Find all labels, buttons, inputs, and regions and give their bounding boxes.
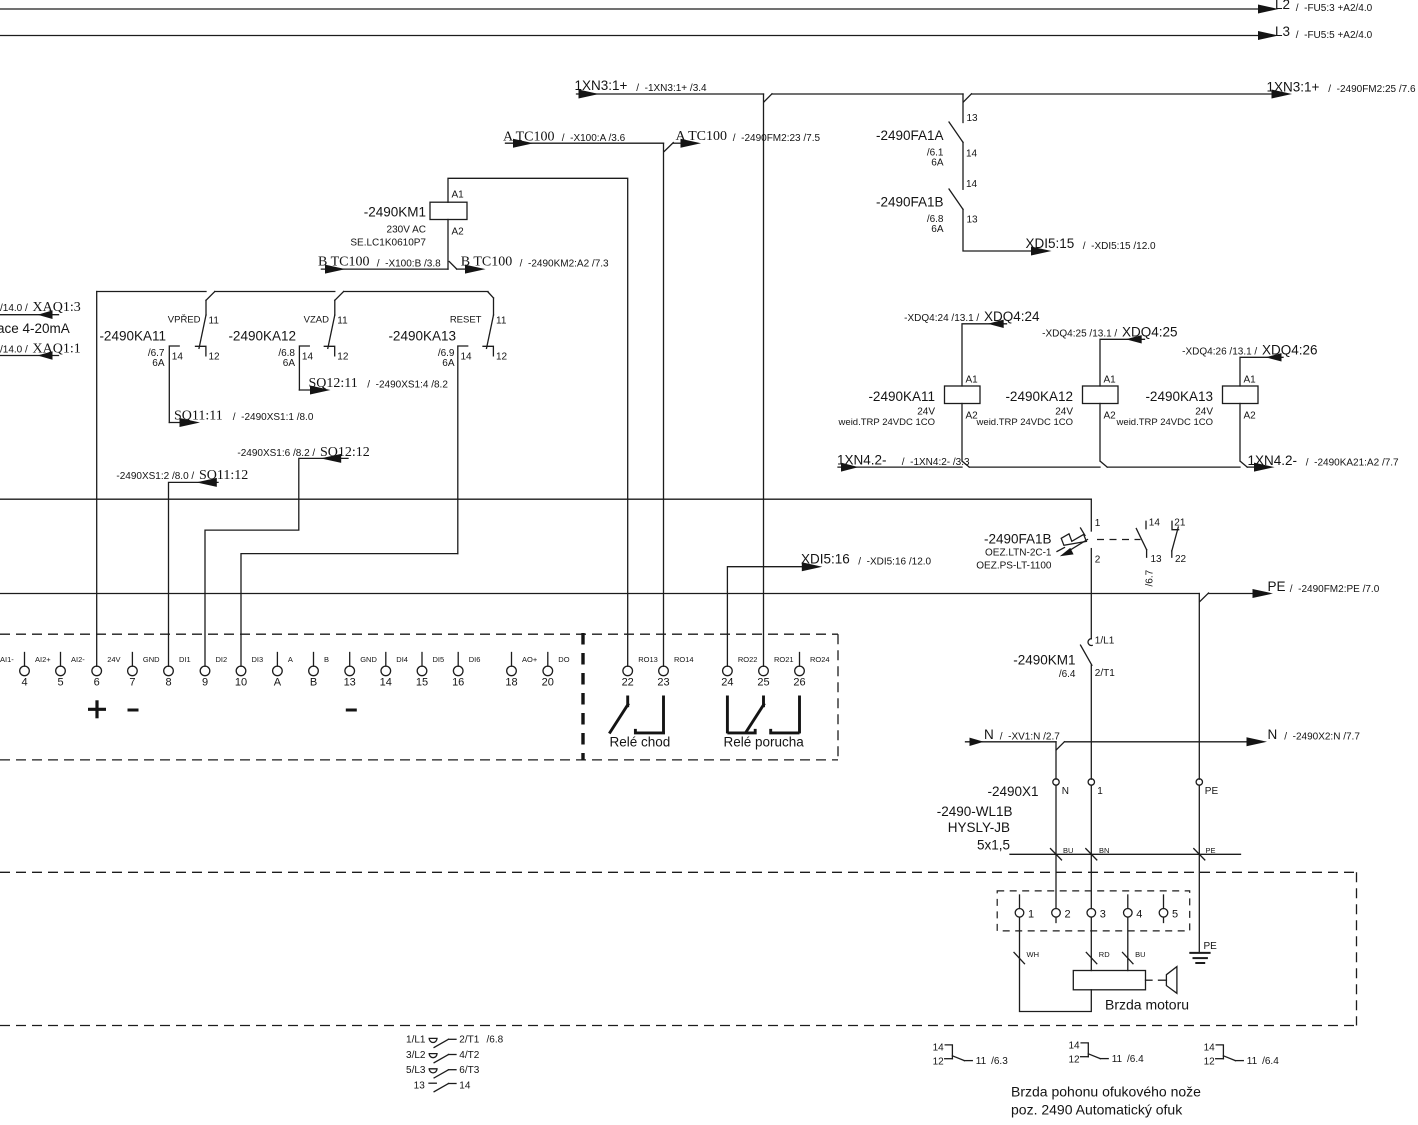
svg-text:22: 22 [1175, 554, 1187, 565]
wire junction jog KA13 A2 [1240, 461, 1247, 467]
plc box dashed right [837, 634, 839, 760]
svg-text:14: 14 [461, 352, 473, 363]
svg-text:14: 14 [966, 149, 978, 160]
svg-text:GND: GND [360, 655, 377, 664]
wire junction jog KA11 A2 [962, 461, 969, 467]
svg-text:14: 14 [1204, 1042, 1216, 1053]
svg-text:8: 8 [165, 677, 171, 689]
svg-text:SQ12:12: SQ12:12 [320, 445, 370, 460]
contact KA12 terminal 12 bar [324, 346, 334, 356]
svg-text:XDQ4:24: XDQ4:24 [984, 309, 1040, 324]
wire motor plug 4 down to brake [1127, 917, 1129, 970]
label plus sign 24V [88, 708, 106, 711]
svg-text:BU: BU [1135, 950, 1145, 959]
node XAQ1:3 wire to left sheet edge [0, 314, 59, 316]
svg-text:DI4: DI4 [396, 655, 408, 664]
svg-text:/ -2490FM2:25 /7.6: / -2490FM2:25 /7.6 [1326, 84, 1416, 95]
wire SQ12:11 horizontal [299, 389, 314, 391]
svg-text:Relé chod: Relé chod [610, 735, 671, 750]
terminal 15 (DI5) [421, 653, 423, 667]
wire junction jog KA11 pin 11 [206, 292, 215, 301]
svg-text:14: 14 [1068, 1040, 1080, 1051]
svg-text:A TC100: A TC100 [676, 129, 727, 144]
svg-text:-2490XS1:6 /8.2 /: -2490XS1:6 /8.2 / [237, 448, 318, 459]
coil KA12 [1083, 386, 1119, 404]
contact KA11 blade [199, 315, 206, 348]
node SQ11:11 source arrow [180, 418, 201, 427]
svg-text:13: 13 [344, 677, 356, 689]
cable WL1B line [1010, 853, 1241, 855]
svg-text:2: 2 [1065, 909, 1071, 921]
breaker FA1B main blade with trip arrow [1068, 540, 1088, 552]
svg-text:VZAD: VZAD [304, 315, 329, 326]
motor plug pin 1 [1015, 909, 1024, 918]
svg-text:B TC100: B TC100 [318, 255, 369, 270]
svg-text:-2490FA1B: -2490FA1B [876, 195, 944, 210]
label minus sign GND [128, 709, 139, 712]
svg-text:24V: 24V [1055, 407, 1073, 418]
svg-text:1/L1: 1/L1 [406, 1035, 426, 1046]
svg-text:-2490-WL1B: -2490-WL1B [937, 804, 1013, 819]
node N left source arrow [970, 738, 984, 746]
wire junction jog B TC100 [449, 262, 456, 269]
node 1XN3:1+ left source arrow [579, 90, 600, 99]
svg-text:/ -FU5:5 +A2/4.0: / -FU5:5 +A2/4.0 [1293, 30, 1373, 41]
svg-text:-2490KA13: -2490KA13 [388, 329, 456, 344]
terminal 22 (RO13) [623, 666, 633, 676]
svg-text:weid.TRP 24VDC 1CO: weid.TRP 24VDC 1CO [838, 417, 935, 428]
terminal 26 (RO24) [799, 653, 801, 667]
svg-text:/ -XDI5:16 /12.0: / -XDI5:16 /12.0 [856, 557, 932, 568]
terminal 13 (GND) [349, 653, 351, 667]
svg-text:13: 13 [414, 1080, 426, 1091]
svg-text:XDQ4:25: XDQ4:25 [1122, 325, 1178, 340]
svg-text:DI3: DI3 [252, 655, 264, 664]
svg-text:/ -X100:A /3.6: / -X100:A /3.6 [559, 133, 626, 144]
svg-text:SQ11:12: SQ11:12 [199, 468, 248, 483]
svg-text:1/L1: 1/L1 [1095, 636, 1115, 647]
svg-text:XAQ1:3: XAQ1:3 [33, 300, 81, 315]
wire X1:N down to motor plug 2 [1055, 785, 1057, 908]
contact KA12 VZAD pin 11 tick [334, 300, 336, 315]
svg-text:XDQ4:26: XDQ4:26 [1262, 343, 1318, 358]
svg-text:DI6: DI6 [469, 655, 481, 664]
svg-text:DI2: DI2 [216, 655, 228, 664]
svg-text:6A: 6A [931, 224, 944, 235]
node SQ12:11 source arrow [310, 386, 331, 395]
svg-text:-2490FA1A: -2490FA1A [876, 128, 944, 143]
breaker FA1B main blade top [1081, 528, 1086, 536]
node PE source arrow [1253, 589, 1274, 598]
node 1XN4.2- right arrow [1254, 463, 1275, 472]
svg-text:OEZ.LTN-2C-1: OEZ.LTN-2C-1 [985, 548, 1052, 559]
svg-text:4: 4 [21, 677, 27, 689]
contact KA12 terminal 14 bracket [299, 346, 309, 390]
svg-text:1: 1 [1095, 518, 1101, 529]
svg-text:-2490X1: -2490X1 [987, 784, 1038, 799]
svg-text:12: 12 [933, 1056, 945, 1067]
svg-text:-2490XS1:2 /8.0 /: -2490XS1:2 /8.0 / [116, 471, 197, 482]
node SQ12:12 destination arrow [321, 454, 342, 463]
svg-text:14: 14 [302, 352, 314, 363]
svg-text:-2490KA11: -2490KA11 [99, 329, 166, 344]
wire FA1A.14 to FA1B.14 [962, 142, 964, 189]
svg-text:-2490FA1B: -2490FA1B [984, 532, 1052, 547]
svg-text:/6.3: /6.3 [991, 1056, 1008, 1067]
svg-text:/ -2490KA21:A2 /7.7: / -2490KA21:A2 /7.7 [1303, 457, 1399, 468]
svg-text:14: 14 [172, 352, 184, 363]
node XAQ1:3 destination arrow [38, 310, 53, 319]
svg-text:DI5: DI5 [433, 655, 445, 664]
svg-text:RO21: RO21 [774, 655, 794, 664]
svg-text:14: 14 [459, 1080, 471, 1091]
terminal 9 (DI2) [200, 666, 210, 676]
svg-text:2: 2 [1095, 555, 1101, 566]
svg-text:6/T3: 6/T3 [459, 1065, 479, 1076]
machine boundary dashed box top [0, 871, 1357, 873]
contact KA13 RESET pin 11 tick [493, 298, 495, 315]
node B TC100 continuation arrow [465, 265, 486, 274]
plc box dashed top [0, 633, 838, 635]
stub below motor plug 2 [1055, 917, 1057, 922]
wire long 24V distribution line [0, 498, 1091, 500]
wire KA11 coil A2 down to 1XN4 bus [961, 404, 963, 462]
svg-text:-XDQ4:24 /13.1 /: -XDQ4:24 /13.1 / [904, 313, 982, 324]
contact FA1B aux 13-14 [1145, 521, 1147, 528]
wire SQ12:12 horizontal, down, left, down to terminal 9 [205, 458, 348, 666]
svg-text:26: 26 [793, 677, 805, 689]
svg-text:14: 14 [933, 1042, 945, 1053]
svg-text:HYSLY-JB: HYSLY-JB [948, 820, 1010, 835]
terminal 24 (RO22) [723, 666, 733, 676]
svg-text:-2490KM1: -2490KM1 [1013, 653, 1075, 668]
wire B TC100 horizontal [321, 268, 448, 270]
svg-text:A TC100: A TC100 [503, 130, 554, 145]
svg-text:12: 12 [1204, 1056, 1216, 1067]
svg-text:11: 11 [1247, 1056, 1258, 1067]
svg-text:25: 25 [757, 677, 769, 689]
svg-text:24V: 24V [107, 655, 120, 664]
wire junction jog at x=763.5 on 1XN3 line [764, 94, 772, 102]
svg-text:-XDQ4:25 /13.1 /: -XDQ4:25 /13.1 / [1042, 329, 1120, 340]
contact FA1B aux 21-22 [1172, 521, 1179, 529]
svg-text:24V: 24V [1195, 407, 1213, 418]
wire FA1B.2 down to KM1 main contact [1090, 549, 1092, 639]
contact KA11 VPRED pin 11 tick [205, 300, 207, 315]
wire KA11 coil A1 up to XDQ4:24 [962, 324, 1007, 386]
motor plug pin 4 [1124, 909, 1133, 918]
motor plug pin 3 [1087, 909, 1096, 918]
brake horn link [1146, 979, 1153, 981]
wire KA13 coil A1 up to XDQ4:26 [1240, 357, 1283, 386]
terminal A (A) [276, 653, 278, 667]
wire KM1 2/T1 down to X1:1 [1090, 665, 1092, 779]
svg-text:1XN3:1+: 1XN3:1+ [1267, 80, 1320, 95]
node N right arrow [1247, 737, 1268, 746]
svg-text:3: 3 [1100, 909, 1106, 921]
svg-text:RESET: RESET [450, 315, 482, 326]
svg-text:Brzda motoru: Brzda motoru [1105, 997, 1189, 1013]
svg-text:A2: A2 [1244, 411, 1257, 422]
svg-text:6A: 6A [442, 358, 455, 369]
terminal 5 (AI2-) [60, 653, 62, 667]
svg-text:PE: PE [1204, 941, 1218, 952]
ground symbol PE [1190, 952, 1209, 954]
contact KA13 terminal 14 bracket [458, 346, 468, 554]
svg-text:9: 9 [202, 677, 208, 689]
svg-text:AI2+: AI2+ [35, 655, 51, 664]
node XDQ4:24 destination arrow [988, 320, 1004, 328]
node XAQ1:1 destination arrow [38, 351, 53, 360]
wire KA13 coil A2 down to 1XN4 bus [1239, 404, 1241, 462]
svg-text:A1: A1 [452, 190, 465, 201]
terminal 23 (RO14) [659, 666, 669, 676]
svg-text:/6.4: /6.4 [1127, 1054, 1144, 1065]
svg-text:21: 21 [1174, 518, 1186, 529]
wire KA12 coil A1 up to XDQ4:25 [1100, 339, 1145, 386]
wire motor plug 1 down, right, up to brake [1020, 917, 1092, 1011]
motor plug dashed box [997, 891, 1189, 931]
svg-text:SQ12:11: SQ12:11 [309, 376, 358, 391]
svg-text:weid.TRP 24VDC 1CO: weid.TRP 24VDC 1CO [1116, 417, 1213, 428]
node XDI5:15 source arrow [1031, 247, 1052, 256]
svg-text:N: N [1062, 786, 1069, 797]
svg-text:Relé porucha: Relé porucha [724, 735, 805, 750]
svg-text:/ -FU5:3 +A2/4.0: / -FU5:3 +A2/4.0 [1293, 3, 1373, 14]
wire N line [966, 741, 1057, 743]
svg-text:A1: A1 [1244, 375, 1257, 386]
svg-text:N: N [1268, 727, 1278, 742]
svg-text:VPŘED: VPŘED [168, 315, 201, 326]
svg-text:/ -XDI5:15 /12.0: / -XDI5:15 /12.0 [1080, 241, 1156, 252]
svg-text:Brzda pohonu ofukového nože: Brzda pohonu ofukového nože [1011, 1084, 1201, 1100]
stub above motor plug 1 [1019, 895, 1021, 909]
wire KA12 coil A2 down to 1XN4 bus [1099, 404, 1101, 462]
svg-text:A: A [288, 655, 293, 664]
wire bus left edge down to terminal 6 [96, 292, 98, 667]
wire 1XN3:1+ net main horizontal [577, 93, 764, 95]
stub above motor plug 5 [1163, 895, 1165, 909]
svg-text:23: 23 [657, 677, 669, 689]
svg-text:/6.4: /6.4 [1059, 669, 1076, 680]
svg-text:XAQ1:1: XAQ1:1 [33, 342, 81, 357]
node A TC100 source arrow [513, 139, 534, 148]
svg-text:2/T1: 2/T1 [459, 1035, 479, 1046]
svg-text:5: 5 [1172, 909, 1178, 921]
svg-text:DI1: DI1 [179, 655, 191, 664]
wire X1:1 down to motor plug 3 [1090, 785, 1092, 908]
svg-text:20: 20 [542, 677, 554, 689]
svg-text:WH: WH [1027, 950, 1040, 959]
contact KA13 terminal 12 bar [483, 346, 493, 356]
machine boundary dashed box right [1356, 872, 1358, 1025]
terminal 18 (AO+) [511, 653, 513, 667]
svg-text:A1: A1 [1104, 375, 1117, 386]
svg-text:13: 13 [1151, 554, 1163, 565]
svg-text:5/L3: 5/L3 [406, 1065, 426, 1076]
svg-text:12: 12 [337, 352, 349, 363]
svg-text:4: 4 [1136, 909, 1142, 921]
breaker FA1B release tail [1057, 548, 1065, 552]
breaker contact FA1A blade [949, 122, 963, 142]
stub above motor plug 4 [1127, 895, 1129, 909]
svg-text:3/L2: 3/L2 [406, 1050, 426, 1061]
terminal 7 (GND) [131, 653, 133, 667]
svg-text:/6.4: /6.4 [1262, 1056, 1279, 1067]
svg-text:11: 11 [209, 316, 220, 327]
svg-text:230V AC: 230V AC [387, 225, 426, 236]
svg-text:A1: A1 [966, 375, 979, 386]
svg-text:18: 18 [505, 677, 517, 689]
svg-text:15: 15 [416, 677, 428, 689]
svg-text:DO: DO [558, 655, 569, 664]
plc box thick dashed separator [581, 633, 584, 761]
svg-text:24: 24 [721, 677, 733, 689]
svg-text:A2: A2 [452, 227, 465, 238]
svg-text:weid.TRP 24VDC 1CO: weid.TRP 24VDC 1CO [976, 417, 1073, 428]
terminal 25 (RO21) [759, 666, 769, 676]
svg-text:4/T2: 4/T2 [459, 1050, 479, 1061]
node L3 source arrow [1258, 31, 1279, 40]
wire XDI5:16 from terminal 24 [727, 567, 810, 667]
wire X1:PE down to ground [1198, 785, 1200, 953]
wire SQ11:12 horizontal and down to terminal 8 [169, 482, 219, 666]
wire junction jog at x=963 on 1XN3 line [963, 94, 971, 102]
svg-text:12: 12 [209, 352, 221, 363]
motor plug pin 2 [1052, 909, 1061, 918]
svg-text:6A: 6A [931, 158, 944, 169]
svg-text:RD: RD [1099, 950, 1110, 959]
svg-text:6: 6 [94, 677, 100, 689]
wire junction jog N to X1:N [1056, 742, 1064, 750]
terminal X1:N [1053, 779, 1059, 785]
svg-text:1XN4.2-: 1XN4.2- [1248, 453, 1298, 468]
svg-text:poz. 2490 Automatický ofuk: poz. 2490 Automatický ofuk [1011, 1102, 1183, 1118]
svg-text:-2490KA11: -2490KA11 [868, 389, 935, 404]
svg-text:/ -X100:B /3.8: / -X100:B /3.8 [374, 258, 441, 269]
svg-text:RO24: RO24 [810, 655, 830, 664]
wire 1XN3 tap down to terminal 25 [763, 94, 765, 666]
contact KA13 blade [487, 315, 494, 348]
node SQ11:12 destination arrow [196, 478, 217, 487]
wire KM1 A2 down [447, 220, 449, 270]
wire FA1B linkage dashed [1097, 539, 1141, 541]
svg-text:GND: GND [143, 655, 160, 664]
svg-text:B TC100: B TC100 [461, 255, 512, 270]
svg-text:14: 14 [966, 179, 978, 190]
cable conductor slash BN [1086, 849, 1097, 860]
wire L3 bus line [0, 35, 1264, 37]
svg-text:L3: L3 [1275, 24, 1290, 39]
svg-text:1XN3:1+: 1XN3:1+ [575, 78, 628, 93]
svg-text:/ -2490FM2:PE /7.0: / -2490FM2:PE /7.0 [1287, 584, 1380, 595]
svg-text:L2: L2 [1275, 0, 1290, 12]
wire long PE line [0, 593, 1199, 595]
node L2 source arrow [1258, 5, 1279, 14]
node 1XN4.2- left source arrow [841, 463, 859, 472]
svg-text:-2490KM1: -2490KM1 [364, 205, 426, 220]
wire FA1B main feed from 24V line [1090, 499, 1092, 531]
node XDQ4:25 destination arrow [1126, 335, 1142, 343]
svg-text:14: 14 [380, 677, 392, 689]
svg-text:OEZ.PS-LT-1100: OEZ.PS-LT-1100 [976, 561, 1052, 572]
svg-text:12: 12 [1068, 1054, 1080, 1065]
svg-text:BU: BU [1063, 846, 1073, 855]
svg-text:16: 16 [452, 677, 464, 689]
svg-text:SE.LC1K0610P7: SE.LC1K0610P7 [350, 238, 426, 249]
terminal 6 (24V) [92, 666, 102, 676]
terminal 10 (DI3) [236, 666, 246, 676]
wire FA1B.13 down and right to XDI5:15 [963, 209, 1037, 251]
wire L2 bus line [0, 8, 1264, 10]
svg-text:11: 11 [976, 1056, 987, 1067]
plc box dashed bottom [0, 759, 838, 761]
wire junction jog KA12 pin 11 [335, 292, 344, 301]
svg-text:/6.7: /6.7 [1145, 569, 1156, 586]
relay output RO13-RO14 contact (Rele chod) [626, 696, 629, 708]
svg-text:22: 22 [622, 677, 634, 689]
svg-text:-2490KA12: -2490KA12 [228, 329, 296, 344]
svg-text:A2: A2 [1104, 411, 1117, 422]
wire bus chamfer into KA13 contact [488, 292, 494, 298]
contactor KM1 main contact arc [1088, 639, 1092, 646]
cable conductor slash PE [1194, 849, 1205, 860]
wire KA13.14 left and down to terminal 10 [241, 554, 458, 667]
contact KA11 terminal 14 bracket [169, 346, 179, 423]
label minus sign GND2 [346, 709, 357, 712]
node 1XN3:1+ right arrow [1272, 90, 1293, 99]
svg-text:11: 11 [1112, 1054, 1123, 1065]
svg-text:5x1,5: 5x1,5 [977, 838, 1010, 853]
svg-text:/ -2490X2:N /7.7: / -2490X2:N /7.7 [1282, 732, 1361, 743]
svg-text:1XN4.2-: 1XN4.2- [837, 452, 887, 467]
svg-text:-XDQ4:26 /13.1 /: -XDQ4:26 /13.1 / [1182, 347, 1260, 358]
contactor KM1 main contact blade [1081, 645, 1092, 665]
svg-text:AO+: AO+ [522, 655, 538, 664]
contact KA11 terminal 12 bar [196, 346, 206, 356]
svg-text:B: B [310, 677, 317, 689]
svg-text:AI1-: AI1- [0, 655, 14, 664]
conductor slash BU2 [1123, 952, 1134, 963]
wire N down to X1:N [1055, 742, 1057, 779]
node A TC100 continuation arrow [681, 139, 702, 148]
svg-text:/6.8: /6.8 [487, 1035, 504, 1046]
svg-text:13: 13 [967, 215, 979, 226]
svg-text:RO14: RO14 [674, 655, 694, 664]
svg-text:RO22: RO22 [738, 655, 758, 664]
svg-text:1: 1 [1028, 909, 1034, 921]
svg-text:SQ11:11: SQ11:11 [174, 409, 223, 424]
node B TC100 source arrow [325, 265, 346, 274]
node XDI5:16 source arrow [802, 562, 823, 571]
svg-text:13: 13 [967, 113, 979, 124]
svg-text:PE: PE [1268, 579, 1286, 594]
terminal X1:1 [1088, 779, 1094, 785]
svg-text:11: 11 [337, 316, 348, 327]
svg-text:AI2-: AI2- [71, 655, 85, 664]
wire A TC100 horizontal [506, 142, 664, 144]
node XAQ1:1 wire to left sheet edge [0, 355, 59, 357]
svg-text:/ -1XN4:2- /3.3: / -1XN4:2- /3.3 [899, 457, 970, 468]
svg-text:6A: 6A [152, 358, 165, 369]
wire SQ11:11 horizontal [169, 422, 184, 424]
terminal B (B) [313, 653, 315, 667]
conductor slash WH [1014, 952, 1025, 963]
wire KM1 coil A1 up and right to terminal 22 [448, 178, 628, 666]
svg-text:PE: PE [1206, 846, 1216, 855]
svg-text:XDI5:16: XDI5:16 [801, 552, 850, 567]
breaker contact FA1A pin 13 wire [962, 94, 964, 123]
